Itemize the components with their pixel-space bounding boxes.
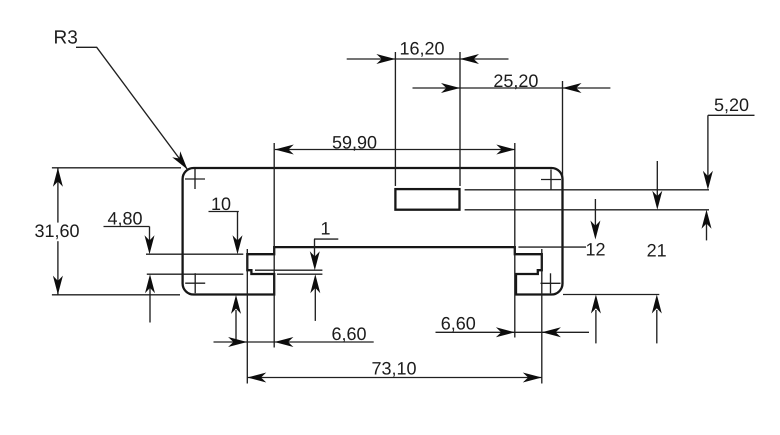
svg-text:1: 1 — [320, 219, 330, 239]
svg-text:12: 12 — [585, 239, 605, 259]
svg-text:73,10: 73,10 — [371, 359, 416, 379]
svg-text:10: 10 — [211, 194, 231, 214]
svg-text:R3: R3 — [54, 28, 78, 49]
svg-text:21: 21 — [647, 240, 667, 260]
svg-text:6,60: 6,60 — [331, 324, 366, 344]
svg-text:59,90: 59,90 — [332, 133, 377, 153]
svg-text:16,20: 16,20 — [399, 38, 444, 58]
svg-text:4,80: 4,80 — [107, 209, 142, 229]
svg-text:5,20: 5,20 — [714, 95, 749, 115]
svg-text:31,60: 31,60 — [34, 221, 79, 241]
svg-text:6,60: 6,60 — [441, 313, 476, 333]
svg-text:25,20: 25,20 — [493, 71, 538, 91]
